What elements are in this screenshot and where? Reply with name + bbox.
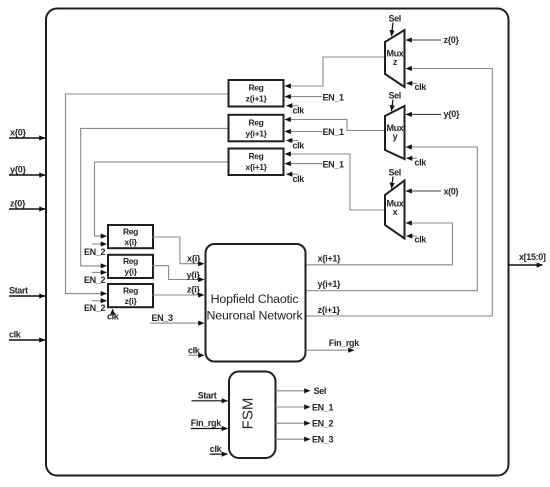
Sel stub mux y xyxy=(389,91,401,112)
mux Mux x xyxy=(385,181,405,239)
svg-text:Sel: Sel xyxy=(389,168,401,178)
wire x{i+1} feedback to mux x xyxy=(306,223,453,265)
wire mux x to reg x{i+1} xyxy=(285,154,385,210)
clk stub reg z{i+1} xyxy=(287,106,306,116)
wire y{i+1} feedback to mux y xyxy=(306,147,478,291)
svg-text:x{i+1}: x{i+1} xyxy=(318,253,342,263)
input x{0} xyxy=(9,128,45,139)
input Start xyxy=(9,286,45,297)
svg-text:Reg: Reg xyxy=(123,285,138,295)
clk stub mux x xyxy=(407,234,428,244)
svg-text:EN_1: EN_1 xyxy=(323,92,344,102)
svg-text:Neuronal Network: Neuronal Network xyxy=(207,308,304,322)
wire reg z{i+1} to reg z{i} xyxy=(66,94,229,294)
register Reg z{i} xyxy=(108,284,153,307)
svg-text:Sel: Sel xyxy=(314,386,326,396)
svg-text:Reg: Reg xyxy=(248,151,263,161)
svg-text:x{i+1}: x{i+1} xyxy=(245,162,267,172)
wire mux y to reg y{i+1} xyxy=(285,120,385,131)
svg-text:EN_1: EN_1 xyxy=(312,402,333,412)
svg-text:clk: clk xyxy=(107,312,120,322)
svg-text:EN_3: EN_3 xyxy=(152,313,173,323)
svg-text:clk: clk xyxy=(415,82,428,92)
register Reg z{i+1} xyxy=(229,80,284,107)
y{0} stub mux y xyxy=(406,109,460,119)
EN_2 output FSM xyxy=(276,419,334,429)
EN_3 wire to HCNN xyxy=(150,313,204,323)
svg-text:EN_3: EN_3 xyxy=(312,435,333,445)
svg-text:y{i+1}: y{i+1} xyxy=(318,279,342,289)
svg-text:y{i}: y{i} xyxy=(124,267,137,277)
svg-text:Start: Start xyxy=(198,390,217,400)
EN_2 stub reg x{i} xyxy=(84,244,107,257)
svg-text:Hopfield Chaotic: Hopfield Chaotic xyxy=(211,292,299,306)
input y{0} xyxy=(9,165,45,176)
register Reg x{i} xyxy=(108,225,153,248)
svg-text:clk: clk xyxy=(415,234,428,244)
svg-text:clk: clk xyxy=(293,106,306,116)
EN_1 output FSM xyxy=(276,402,334,412)
svg-text:Sel: Sel xyxy=(389,91,401,101)
svg-text:EN_2: EN_2 xyxy=(84,275,105,285)
EN_1 stub reg y{i+1} xyxy=(285,127,344,137)
wire mux z to reg z{i+1} xyxy=(285,57,385,86)
mux Mux y xyxy=(385,106,405,159)
output x{i+1} label xyxy=(318,253,342,263)
svg-text:z{i+1}: z{i+1} xyxy=(246,94,268,104)
svg-text:clk: clk xyxy=(293,140,306,150)
register Reg y{i} xyxy=(108,255,153,278)
clk stub reg x{i+1} xyxy=(287,174,306,184)
register Reg y{i+1} xyxy=(229,115,284,142)
clk stub reg z{i} xyxy=(107,309,120,322)
svg-text:clk: clk xyxy=(210,444,223,454)
clk stub mux z xyxy=(407,82,428,92)
svg-text:z{0}: z{0} xyxy=(10,199,26,209)
EN_1 stub reg x{i+1} xyxy=(285,159,344,169)
svg-text:clk: clk xyxy=(9,330,22,340)
svg-text:clk: clk xyxy=(188,345,201,355)
EN_2 stub reg z{i} xyxy=(84,301,107,313)
svg-text:x{i}: x{i} xyxy=(187,253,201,263)
svg-text:x: x xyxy=(393,207,398,217)
output z{i+1} label xyxy=(318,305,341,315)
svg-text:Fin_rgk: Fin_rgk xyxy=(191,418,222,428)
svg-text:EN_2: EN_2 xyxy=(84,247,105,257)
input clk xyxy=(9,330,45,341)
mux Mux z xyxy=(385,30,405,87)
svg-text:y{i+1}: y{i+1} xyxy=(245,128,267,138)
clk stub reg y{i+1} xyxy=(287,140,306,150)
Start input FSM xyxy=(192,390,228,401)
block Hopfield Chaotic Neuronal Network xyxy=(206,244,306,362)
svg-text:y{0}: y{0} xyxy=(444,109,460,119)
register Reg x{i+1} xyxy=(229,149,284,176)
svg-text:EN_2: EN_2 xyxy=(84,303,105,313)
svg-text:x[15:0]: x[15:0] xyxy=(519,252,546,262)
svg-text:z{i+1}: z{i+1} xyxy=(318,305,341,315)
svg-text:FSM: FSM xyxy=(240,398,257,430)
Fin_rgk input FSM xyxy=(191,418,228,428)
svg-text:Reg: Reg xyxy=(123,256,138,266)
svg-text:y: y xyxy=(393,131,398,141)
svg-text:EN_1: EN_1 xyxy=(323,159,344,169)
svg-text:z{i}: z{i} xyxy=(187,284,200,294)
EN_3 output FSM xyxy=(276,435,334,445)
svg-text:Sel: Sel xyxy=(389,14,401,24)
svg-text:Reg: Reg xyxy=(123,226,138,236)
svg-text:x{i}: x{i} xyxy=(124,237,137,247)
Sel output FSM xyxy=(276,386,327,396)
output x[15:0] xyxy=(509,252,546,265)
svg-text:y{0}: y{0} xyxy=(10,165,26,175)
svg-text:x(0): x(0) xyxy=(444,187,459,197)
svg-text:y{i}: y{i} xyxy=(187,270,201,280)
input z{0} xyxy=(9,199,45,210)
x(0) stub mux x xyxy=(406,187,458,197)
EN_2 stub reg y{i} xyxy=(84,272,107,285)
Sel stub mux z xyxy=(389,14,401,37)
wire reg x{i+1} to reg x{i} xyxy=(95,162,229,236)
EN_1 stub reg z{i+1} xyxy=(285,92,344,102)
svg-text:EN_2: EN_2 xyxy=(312,419,333,429)
wire reg y{i+1} to reg y{i} xyxy=(81,128,229,266)
svg-text:clk: clk xyxy=(415,158,428,168)
Fin_rgk output stub xyxy=(306,338,361,350)
output y{i+1} label xyxy=(318,279,342,289)
svg-text:EN_1: EN_1 xyxy=(323,127,344,137)
wire y{i} to HCNN xyxy=(153,266,205,280)
svg-text:x{0}: x{0} xyxy=(10,128,26,138)
Sel stub mux x xyxy=(389,168,401,189)
svg-text:Reg: Reg xyxy=(248,118,263,128)
clk stub mux y xyxy=(407,158,428,168)
wire z{i+1} feedback to mux z xyxy=(306,69,493,317)
block FSM xyxy=(229,372,276,459)
clk input FSM xyxy=(210,444,228,454)
svg-text:Reg: Reg xyxy=(248,83,263,93)
svg-text:z{i}: z{i} xyxy=(125,296,138,306)
svg-text:Fin_rgk: Fin_rgk xyxy=(329,338,360,348)
wire x{i} to HCNN xyxy=(153,237,205,264)
z{0} stub mux z xyxy=(406,35,459,45)
svg-text:z{0}: z{0} xyxy=(444,35,460,45)
svg-text:Start: Start xyxy=(9,286,28,296)
wire z{i} to HCNN xyxy=(153,284,205,295)
svg-text:clk: clk xyxy=(293,174,306,184)
clk stub HCNN xyxy=(188,345,204,355)
